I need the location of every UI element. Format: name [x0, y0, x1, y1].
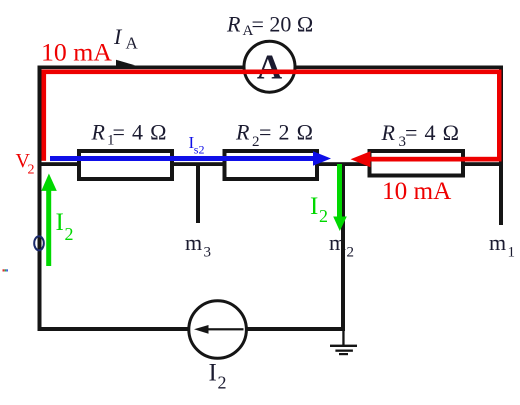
svg-text:2: 2 — [218, 373, 227, 393]
svg-text:I: I — [310, 193, 318, 220]
svg-text:= 4 Ω: = 4 Ω — [405, 120, 460, 145]
svg-text:2: 2 — [28, 163, 35, 178]
svg-text:2: 2 — [347, 245, 355, 261]
svg-text:I: I — [209, 360, 217, 387]
svg-text:I: I — [113, 24, 123, 49]
svg-text:m: m — [489, 230, 506, 255]
svg-text:10 mA: 10 mA — [382, 178, 451, 205]
svg-text:A: A — [257, 48, 283, 87]
svg-text:1: 1 — [508, 245, 516, 261]
svg-text:2: 2 — [65, 224, 74, 244]
svg-text:3: 3 — [204, 245, 212, 261]
svg-text:= 4 Ω: = 4 Ω — [113, 120, 168, 145]
svg-text:R: R — [235, 120, 250, 145]
svg-text:2: 2 — [319, 206, 328, 226]
svg-text:I: I — [56, 209, 64, 236]
svg-text:s2: s2 — [194, 143, 205, 157]
svg-text:= 20 Ω: = 20 Ω — [252, 11, 314, 36]
svg-text:10 mA: 10 mA — [41, 38, 112, 67]
svg-text:R: R — [381, 120, 396, 145]
svg-text:m: m — [185, 230, 202, 255]
svg-text:R: R — [226, 11, 241, 36]
svg-text:A: A — [126, 34, 139, 53]
svg-text:R: R — [91, 120, 106, 145]
svg-text:= 2 Ω: = 2 Ω — [259, 120, 314, 145]
